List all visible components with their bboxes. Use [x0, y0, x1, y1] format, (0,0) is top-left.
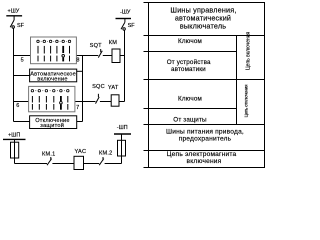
svg-text:КМ.1: КМ.1	[42, 151, 55, 157]
svg-text:предохранитель: предохранитель	[179, 135, 232, 142]
svg-text:YAC: YAC	[75, 149, 87, 155]
svg-text:Цепь включения: Цепь включения	[245, 31, 251, 70]
svg-text:SQC: SQC	[92, 84, 105, 90]
svg-text:+ШП: +ШП	[8, 133, 20, 139]
svg-text:6: 6	[16, 103, 19, 109]
svg-text:Ключом: Ключом	[178, 96, 202, 103]
svg-text:YAT: YAT	[108, 85, 119, 91]
svg-text:Ключом: Ключом	[178, 38, 202, 45]
svg-text:Шины питания привода,: Шины питания привода,	[166, 128, 244, 135]
svg-text:-ШУ: -ШУ	[120, 10, 131, 16]
svg-text:7: 7	[76, 105, 79, 111]
svg-text:От защиты: От защиты	[173, 116, 207, 123]
svg-text:8: 8	[76, 57, 79, 63]
svg-text:Цепь отключения: Цепь отключения	[244, 84, 249, 117]
svg-text:выключатель: выключатель	[180, 21, 226, 30]
svg-text:SF: SF	[17, 23, 25, 29]
svg-text:+ШУ: +ШУ	[8, 8, 20, 14]
svg-text:автоматики: автоматики	[171, 66, 206, 73]
svg-text:КМ.2: КМ.2	[99, 150, 112, 156]
svg-text:5: 5	[21, 58, 24, 64]
svg-text:Цепь электромагнита: Цепь электромагнита	[167, 151, 237, 158]
svg-text:включение: включение	[37, 77, 67, 83]
svg-text:КМ: КМ	[109, 40, 117, 46]
svg-text:SF: SF	[128, 23, 136, 29]
svg-text:-ШП: -ШП	[117, 125, 128, 131]
svg-text:включения: включения	[187, 158, 222, 165]
svg-text:SQT: SQT	[90, 43, 102, 49]
svg-text:защитой: защитой	[40, 122, 64, 129]
